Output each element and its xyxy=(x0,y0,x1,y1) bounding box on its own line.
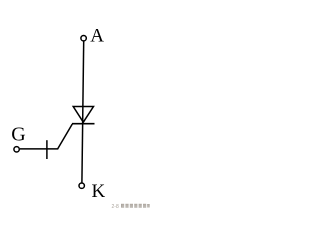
terminal G circle xyxy=(14,147,19,152)
thyristor triangle xyxy=(73,107,93,123)
svg-text:G: G xyxy=(11,124,25,146)
terminal A circle xyxy=(81,36,86,41)
gate tick mark xyxy=(46,140,48,159)
svg-text:K: K xyxy=(92,181,106,202)
terminal K circle xyxy=(79,183,84,188)
gate diagonal wire xyxy=(58,124,73,149)
wire anode to cathode vertical xyxy=(82,41,84,183)
cathode bar xyxy=(72,123,95,125)
svg-text:2-8: 2-8 xyxy=(112,204,119,210)
svg-text:A: A xyxy=(90,26,104,47)
gate horizontal wire xyxy=(20,148,58,150)
